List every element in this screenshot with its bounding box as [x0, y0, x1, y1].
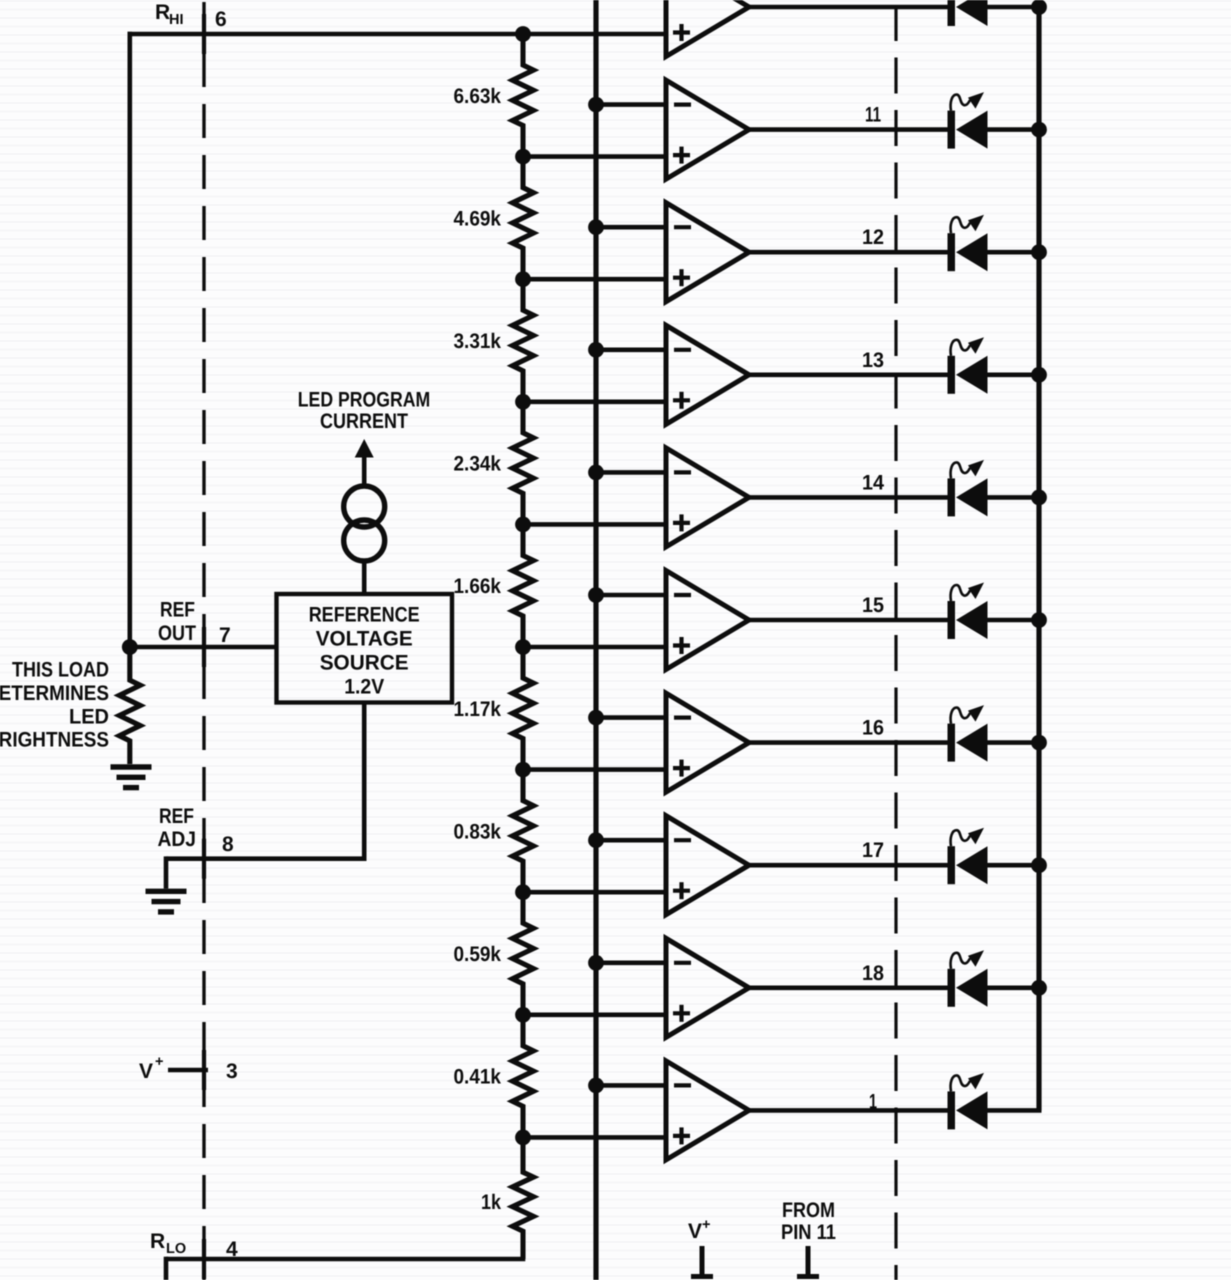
svg-text:V: V: [139, 1060, 153, 1083]
svg-text:ADJ: ADJ: [158, 828, 197, 851]
svg-text:FROM: FROM: [782, 1199, 835, 1222]
svg-text:0.59k: 0.59k: [454, 943, 502, 966]
svg-text:3: 3: [226, 1060, 238, 1083]
svg-text:7: 7: [219, 624, 231, 647]
svg-text:+: +: [155, 1054, 163, 1070]
svg-text:1.2V: 1.2V: [344, 676, 384, 699]
svg-text:REF: REF: [160, 599, 195, 622]
svg-text:4: 4: [226, 1238, 238, 1261]
svg-text:14: 14: [862, 471, 884, 494]
svg-text:17: 17: [862, 839, 884, 862]
svg-text:0.41k: 0.41k: [454, 1066, 502, 1089]
svg-text:1.66k: 1.66k: [454, 575, 502, 598]
svg-text:11: 11: [865, 104, 881, 127]
svg-text:LED PROGRAM: LED PROGRAM: [298, 389, 431, 412]
svg-text:15: 15: [862, 594, 884, 617]
svg-text:1k: 1k: [481, 1191, 501, 1214]
svg-text:1.17k: 1.17k: [454, 698, 502, 721]
svg-text:6: 6: [215, 8, 227, 31]
svg-text:R: R: [150, 1230, 165, 1253]
svg-text:LO: LO: [166, 1241, 186, 1257]
svg-text:PIN 11: PIN 11: [781, 1221, 836, 1244]
svg-text:6.63k: 6.63k: [454, 85, 502, 108]
svg-text:CURRENT: CURRENT: [320, 410, 408, 433]
svg-text:16: 16: [862, 717, 884, 740]
svg-text:LED: LED: [69, 705, 109, 728]
svg-text:13: 13: [862, 349, 884, 372]
svg-text:BRIGHTNESS: BRIGHTNESS: [0, 729, 109, 752]
svg-text:18: 18: [862, 962, 884, 985]
svg-text:HI: HI: [169, 12, 184, 28]
svg-text:8: 8: [222, 833, 234, 856]
svg-text:OUT: OUT: [158, 622, 196, 645]
svg-text:4.69k: 4.69k: [454, 207, 502, 230]
svg-text:SOURCE: SOURCE: [320, 652, 409, 675]
svg-text:R: R: [155, 1, 170, 24]
svg-text:REFERENCE: REFERENCE: [309, 604, 420, 627]
svg-text:3.31k: 3.31k: [454, 330, 502, 353]
svg-text:12: 12: [862, 226, 884, 249]
svg-text:REF: REF: [159, 805, 194, 828]
svg-text:+: +: [702, 1217, 710, 1233]
svg-text:1: 1: [869, 1090, 877, 1113]
svg-text:0.83k: 0.83k: [454, 820, 502, 843]
svg-text:DETERMINES: DETERMINES: [0, 682, 109, 705]
svg-text:V: V: [688, 1220, 702, 1243]
svg-text:VOLTAGE: VOLTAGE: [316, 628, 413, 651]
svg-text:2.34k: 2.34k: [454, 453, 502, 476]
svg-text:THIS LOAD: THIS LOAD: [12, 659, 109, 682]
